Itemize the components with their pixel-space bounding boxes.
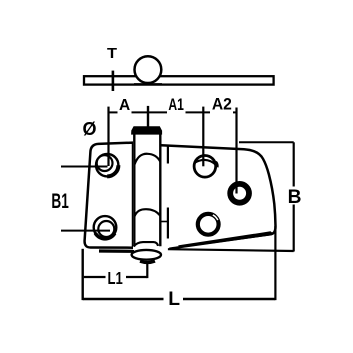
- svg-text:Ø: Ø: [82, 119, 96, 139]
- svg-text:B: B: [288, 187, 302, 208]
- svg-text:A1: A1: [168, 95, 184, 114]
- svg-text:L1: L1: [108, 268, 123, 288]
- svg-text:B1: B1: [51, 190, 69, 213]
- svg-text:A: A: [119, 97, 130, 114]
- svg-text:A2: A2: [212, 94, 232, 113]
- svg-text:L: L: [168, 289, 180, 310]
- svg-text:T: T: [107, 46, 117, 62]
